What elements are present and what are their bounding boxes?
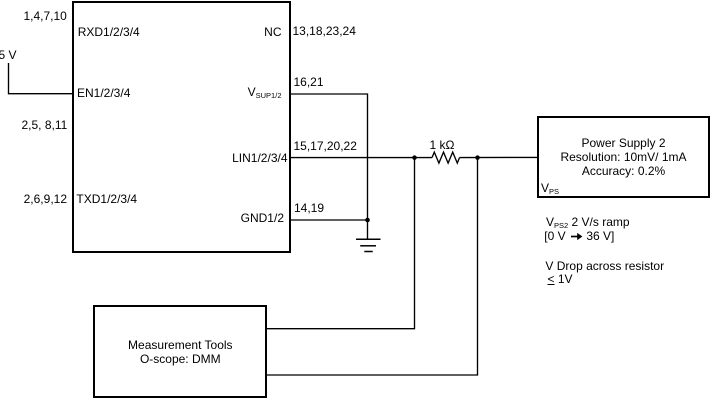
wire resistor to Power Supply 2 bbox=[460, 156, 538, 158]
Power Supply 2 text bbox=[538, 136, 709, 178]
wire LIN1/2/3/4 pin to resistor bbox=[290, 157, 432, 159]
pin TXD1/2/3/4 bbox=[76, 193, 137, 206]
pin numbers 16,21 bbox=[294, 76, 324, 89]
node right of resistor bbox=[475, 155, 480, 160]
pin numbers 14,19 bbox=[294, 202, 324, 215]
label VPS bbox=[541, 182, 559, 195]
note 0V to 36V bbox=[544, 230, 614, 243]
node ground junction bbox=[365, 218, 370, 223]
wire GND1/2 pin 14,19 to ground node bbox=[290, 219, 368, 221]
Measurement Tools text bbox=[94, 339, 266, 367]
ground bbox=[356, 239, 381, 251]
pin numbers 13,18,23,24 bbox=[293, 25, 356, 38]
node left of resistor bbox=[412, 155, 417, 160]
pin GND1/2 bbox=[241, 212, 284, 225]
label 5 V bbox=[0, 49, 17, 62]
pin VSUP1/2 bbox=[248, 86, 282, 99]
pin LIN1/2/3/4 bbox=[232, 152, 287, 165]
wire VSUP1/2 pin 16,21 to ground node bbox=[290, 94, 368, 239]
note VPS2 ramp bbox=[546, 216, 630, 229]
pin numbers 15,17,20,22 bbox=[294, 140, 357, 153]
pin numbers 2,5, 8,11 bbox=[21, 119, 67, 132]
wire left resistor node to Measurement Tools bbox=[267, 158, 415, 329]
note <= 1V bbox=[548, 273, 573, 286]
IC U1 LIN transceiver box bbox=[72, 1, 291, 253]
pin EN1/2/3/4 bbox=[77, 87, 130, 100]
resistor R1 1 kOhm bbox=[432, 152, 460, 163]
Power Supply 2 box bbox=[537, 116, 711, 198]
pin NC bbox=[264, 26, 281, 39]
pin numbers 2,6,9,12 bbox=[24, 193, 67, 206]
pin numbers 1,4,7,10 bbox=[23, 10, 66, 23]
pin RXD1/2/3/4 bbox=[78, 26, 140, 39]
note V drop across resistor bbox=[545, 260, 664, 273]
value label 1 kOhm bbox=[430, 139, 455, 152]
wire 5V supply to EN pin bbox=[9, 63, 74, 94]
wire right resistor node to Measurement Tools bbox=[267, 158, 478, 375]
Measurement Tools box bbox=[93, 305, 267, 398]
